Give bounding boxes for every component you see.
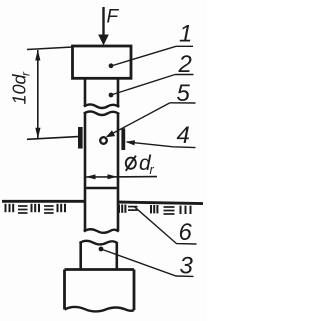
- svg-text:5: 5: [177, 80, 191, 107]
- svg-text:2: 2: [178, 51, 192, 78]
- svg-text:1: 1: [179, 21, 192, 48]
- svg-text:10d: 10d: [10, 73, 30, 104]
- svg-text:3: 3: [180, 253, 194, 280]
- svg-text:4: 4: [177, 122, 190, 149]
- svg-text:F: F: [107, 6, 120, 27]
- svg-text:6: 6: [179, 219, 193, 246]
